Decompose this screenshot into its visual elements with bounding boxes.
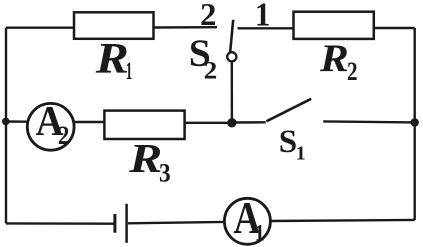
resistor R3 [104, 111, 184, 188]
node (left junction) [2, 118, 10, 126]
svg-text:1: 1 [296, 143, 306, 165]
node 1 [255, 0, 270, 34]
node (right junction) [411, 118, 419, 126]
wire [238, 27, 294, 29]
svg-text:R: R [95, 36, 129, 83]
resistor R1 [74, 12, 154, 85]
svg-text:R: R [319, 36, 349, 80]
wire [5, 28, 7, 224]
switch S2 [189, 20, 237, 85]
svg-text:3: 3 [159, 159, 171, 187]
resistor R2 [294, 12, 374, 87]
wire [323, 121, 414, 122]
svg-text:1: 1 [126, 58, 133, 85]
ammeter A1 [224, 193, 270, 245]
wire [6, 120, 27, 123]
svg-text:S: S [279, 124, 297, 160]
node (middle junction) [227, 118, 236, 127]
ammeter A2 [27, 98, 74, 151]
wire [185, 122, 232, 124]
wire [154, 26, 218, 29]
wire [414, 28, 416, 220]
svg-text:2: 2 [347, 58, 358, 87]
node 2 [200, 0, 216, 33]
wire [374, 27, 415, 29]
svg-text:2: 2 [200, 0, 216, 33]
wire [6, 27, 74, 29]
svg-text:2: 2 [58, 122, 70, 151]
svg-text:R: R [128, 135, 162, 181]
wire [270, 220, 414, 221]
svg-text:2: 2 [204, 56, 218, 84]
wire [231, 61, 233, 122]
wire [128, 222, 224, 223]
switch S1 [266, 99, 311, 165]
battery [115, 204, 127, 243]
wire [6, 222, 114, 225]
wire [74, 121, 104, 123]
svg-text:1: 1 [255, 220, 265, 246]
wire [232, 121, 266, 124]
